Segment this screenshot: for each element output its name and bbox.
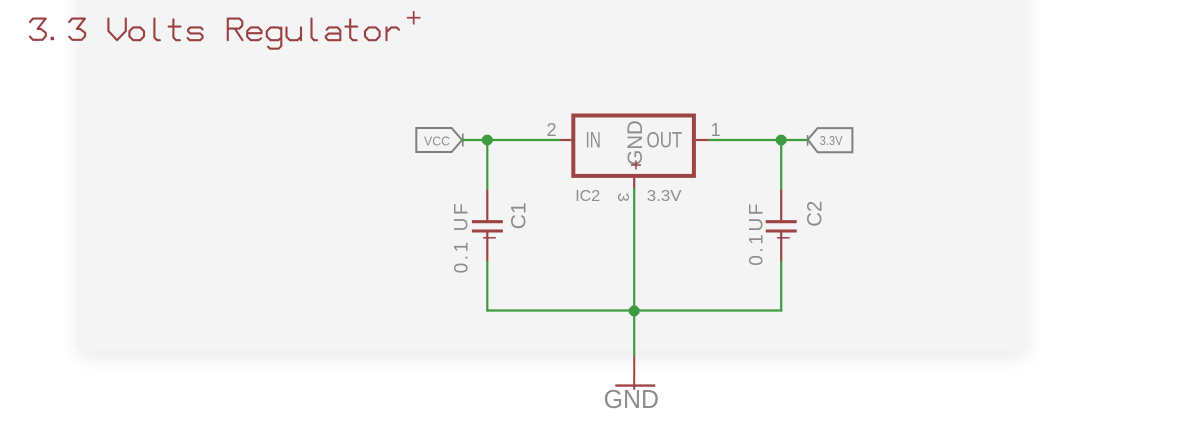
wire VCC to IC pin 2 [462,139,560,141]
svg-text:0.1UF: 0.1UF [747,201,768,266]
svg-text:C2: C2 [804,201,827,227]
title text "3.3 Volts Regulator" [30,19,399,49]
junction node C [629,306,640,317]
wire IC pin 1 to 3.3V flag [708,139,808,141]
svg-text:GND: GND [624,120,647,165]
wire junction A down to C1 [486,140,488,190]
junction node B [776,135,787,146]
cursor cross marker [407,11,421,25]
svg-text:2: 2 [546,120,556,140]
IC2 pin 3 stub [633,178,635,189]
VCC pin tick [462,134,464,147]
wire junction C down to ground [633,311,635,357]
wire IC pin 3 down [633,188,635,310]
junction node A [482,135,493,146]
supply flag VCC [416,128,462,152]
IC2 voltage regulator box [573,116,694,176]
bottom net wire [486,309,782,311]
capacitor C2 [766,190,797,262]
svg-text:IC2: IC2 [575,188,600,205]
ground symbol GND [615,356,655,390]
wire C2 down to bottom net [780,261,782,311]
svg-text:GND: GND [604,384,659,414]
svg-text:0.1 UF: 0.1 UF [452,201,473,274]
svg-text:VCC: VCC [424,134,450,149]
capacitor C1 [472,190,503,262]
3.3V pin tick [807,135,809,146]
wire junction B down to C2 [780,140,782,190]
svg-text:3: 3 [614,193,631,202]
svg-text:1: 1 [711,120,721,140]
svg-text:3.3V: 3.3V [820,133,843,148]
svg-text:3.3V: 3.3V [647,188,682,205]
wire C1 down to bottom net [486,261,488,311]
schematic sheet canvas [77,0,1028,351]
svg-text:OUT: OUT [647,128,683,153]
IC2 pin 1 stub [696,139,709,141]
IC2 origin cross [631,161,641,170]
IC2 pin 2 stub [560,139,571,141]
supply flag 3.3V [808,128,853,152]
svg-text:C1: C1 [508,202,531,229]
svg-text:IN: IN [586,128,601,153]
